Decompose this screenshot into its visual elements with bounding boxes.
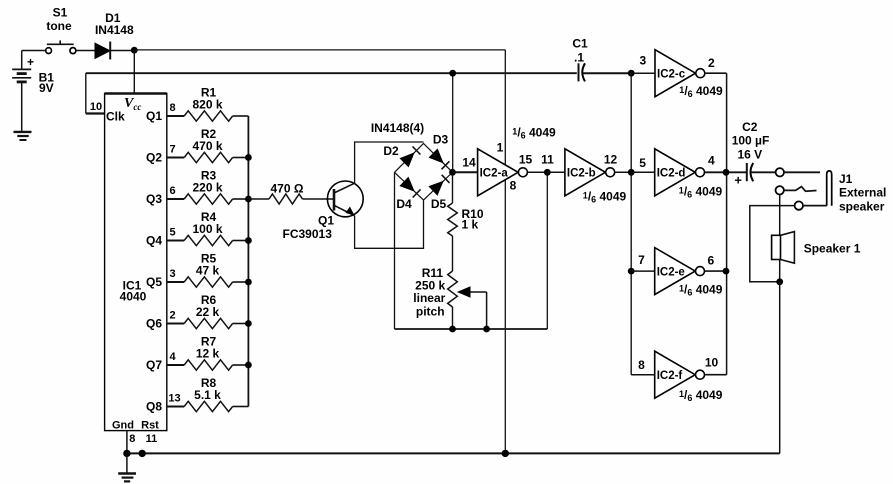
switch S1 tone <box>46 6 76 54</box>
pin 1 <box>497 141 504 155</box>
junction <box>245 362 252 369</box>
IC1 output Q8 pin 13 <box>146 393 184 414</box>
op-amp inverter IC2-d <box>655 149 705 196</box>
wire Q1 emitter <box>355 200 424 248</box>
wire Q1 collector <box>355 142 424 183</box>
svg-text:4: 4 <box>708 154 715 168</box>
svg-text:Q2: Q2 <box>146 151 162 165</box>
svg-text:Q6: Q6 <box>146 317 162 331</box>
diode D2 <box>383 144 420 167</box>
svg-text:11: 11 <box>541 153 554 167</box>
svg-text:3: 3 <box>639 53 646 67</box>
wire node14 to R10 <box>452 172 454 203</box>
svg-text:IC2-b: IC2-b <box>567 168 596 180</box>
svg-text:1 k: 1 k <box>462 217 479 231</box>
IC1 output Q5 pin 3 <box>146 268 184 289</box>
svg-text:470 k: 470 k <box>192 139 222 153</box>
svg-text:12: 12 <box>604 153 618 167</box>
jack sleeve contact <box>795 201 827 209</box>
svg-text:IC2-d: IC2-d <box>657 168 686 180</box>
junction IC2-e out <box>723 268 730 275</box>
svg-text:100 k: 100 k <box>192 222 222 236</box>
wire Vcc rail top <box>134 50 505 454</box>
svg-text:Speaker 1: Speaker 1 <box>804 242 861 256</box>
svg-text:IC2-a: IC2-a <box>480 168 509 180</box>
svg-text:5: 5 <box>169 227 175 239</box>
jack tip contact <box>776 168 784 176</box>
R11 wiper arrow <box>457 286 487 329</box>
svg-text:pitch: pitch <box>416 304 445 318</box>
wire node5 to IC2-d <box>631 171 655 173</box>
junction rst pin <box>139 450 146 457</box>
capacitor C1 .1 <box>572 37 588 82</box>
pin 14 <box>462 156 476 170</box>
diode D4 <box>396 177 420 211</box>
wire bus to R9 <box>248 198 269 200</box>
svg-text:Q5: Q5 <box>146 275 162 289</box>
wire speaker return drop <box>779 282 781 454</box>
svg-text:1/6 4049: 1/6 4049 <box>512 126 556 141</box>
wire output bus <box>726 73 728 375</box>
junction <box>245 279 252 286</box>
wire bridge edges <box>395 144 453 201</box>
wire node11 drop <box>546 172 548 329</box>
svg-text:22 k: 22 k <box>196 305 220 319</box>
op-amp inverter IC2-e <box>655 248 705 295</box>
wire IC2-d out <box>705 171 747 173</box>
svg-text:IC2-e: IC2-e <box>657 266 685 278</box>
svg-text:10: 10 <box>705 355 719 369</box>
jack NC contact <box>776 186 817 194</box>
IC1 Gnd pin stub <box>126 431 128 454</box>
svg-text:1: 1 <box>497 141 504 155</box>
svg-text:1/6 4049: 1/6 4049 <box>679 84 723 99</box>
pin 8 <box>510 179 517 193</box>
svg-text:FC39013: FC39013 <box>283 227 333 241</box>
node 3 <box>628 53 647 76</box>
svg-text:C2: C2 <box>742 120 758 134</box>
wire IC2-e out <box>705 270 727 272</box>
svg-text:External: External <box>839 186 886 200</box>
junction gnd pin <box>123 450 130 457</box>
op-amp inverter IC2-a <box>478 149 528 196</box>
label 1/6 4049 (d) <box>679 185 723 200</box>
svg-text:100 µF: 100 µF <box>732 134 770 148</box>
svg-text:D5: D5 <box>431 197 447 211</box>
svg-text:470 Ω: 470 Ω <box>271 181 304 195</box>
node 5 <box>628 156 646 176</box>
svg-text:820 k: 820 k <box>192 98 222 112</box>
svg-text:8: 8 <box>169 102 175 114</box>
resistor R8 5.1 k <box>184 376 248 412</box>
speaker Speaker 1 <box>772 232 861 264</box>
wire IC2-b out to node5 <box>615 171 632 173</box>
svg-text:15: 15 <box>519 153 533 167</box>
wire node11 to IC2-b <box>547 171 565 173</box>
junction <box>245 320 252 327</box>
svg-text:8: 8 <box>638 358 645 372</box>
wire Vcc drop to IC1 <box>133 50 135 93</box>
svg-text:13: 13 <box>168 393 180 405</box>
junction IC2-d out <box>723 169 730 176</box>
pin 6 <box>708 254 715 268</box>
svg-text:Rst: Rst <box>141 420 159 432</box>
svg-text:Q4: Q4 <box>146 234 162 248</box>
svg-text:.1: .1 <box>574 50 584 64</box>
node Vcc junction <box>131 47 138 54</box>
svg-text:D3: D3 <box>433 133 449 147</box>
svg-text:11: 11 <box>146 433 158 445</box>
node junction clk <box>449 70 456 77</box>
jack J1 frame <box>827 171 887 214</box>
wire C1 to node3 <box>583 72 632 74</box>
junction <box>245 196 252 203</box>
svg-text:1/6 4049: 1/6 4049 <box>583 190 627 205</box>
junction <box>245 154 252 161</box>
svg-text:6: 6 <box>169 185 175 197</box>
resistor R7 12 k <box>184 335 248 371</box>
IC1 output Q7 pin 4 <box>146 351 184 372</box>
svg-text:IC2-f: IC2-f <box>657 370 683 382</box>
op-amp inverter IC2-c <box>655 50 705 97</box>
IC1 output Q3 pin 6 <box>146 185 184 206</box>
wire R10 to R11 <box>452 236 454 271</box>
wire summing bus <box>247 116 249 407</box>
pin 4 <box>708 154 715 168</box>
svg-text:IN4148(4): IN4148(4) <box>371 121 424 135</box>
node 14 bridge output <box>449 169 456 176</box>
node 11 <box>541 153 554 176</box>
op-amp inverter IC2-f <box>655 351 705 398</box>
svg-text:8: 8 <box>510 179 517 193</box>
svg-text:linear: linear <box>413 291 445 305</box>
wire switch to diode <box>76 50 95 52</box>
svg-text:4040: 4040 <box>120 290 147 304</box>
junction R11 bottom <box>449 326 456 333</box>
junction vcc-line bottom <box>502 450 509 457</box>
svg-text:1/6 4049: 1/6 4049 <box>679 388 723 403</box>
potentiometer R11 250k linear pitch <box>413 266 457 318</box>
svg-text:Q7: Q7 <box>146 358 162 372</box>
svg-text:2: 2 <box>708 56 715 70</box>
wire IC2-a out <box>527 171 547 173</box>
transistor Q1 FC39013 <box>283 181 364 241</box>
svg-text:14: 14 <box>462 156 476 170</box>
IC U1 counter IC1 4040 box <box>90 94 167 446</box>
pin 2 <box>708 56 715 70</box>
wire R11 to rail <box>452 307 454 329</box>
ground (battery) <box>14 132 32 140</box>
svg-text:7: 7 <box>638 253 645 267</box>
svg-text:10: 10 <box>90 101 102 113</box>
wire node3 to IC2-c <box>631 72 655 74</box>
pin 10 <box>705 355 719 369</box>
svg-text:Q1: Q1 <box>318 214 334 228</box>
pin 15 <box>519 153 533 167</box>
svg-text:3: 3 <box>169 268 175 280</box>
svg-text:Q8: Q8 <box>146 400 162 414</box>
resistor R10 1k <box>448 203 484 236</box>
resistor 470 ohm <box>269 181 304 204</box>
wire IC2-c out <box>705 72 726 74</box>
svg-text:tone: tone <box>46 19 72 33</box>
wire speaker to junction <box>779 260 781 282</box>
label 1/6 4049 (f) <box>679 388 723 403</box>
IC1 output Q6 pin 2 <box>146 310 184 331</box>
pin 12 <box>604 153 618 167</box>
svg-text:Gnd: Gnd <box>112 420 134 432</box>
svg-text:7: 7 <box>169 144 175 156</box>
IC1 output Q1 pin 8 <box>146 102 184 123</box>
svg-text:C1: C1 <box>572 37 588 51</box>
svg-text:S1: S1 <box>53 6 68 20</box>
svg-text:4: 4 <box>169 351 176 363</box>
wire node7 to IC2-e <box>631 270 655 272</box>
svg-text:6: 6 <box>708 254 715 268</box>
junction <box>245 237 252 244</box>
svg-text:2: 2 <box>169 310 175 322</box>
wire R9 to Q1 base <box>303 198 335 200</box>
wire C2 to jack tip <box>751 171 775 173</box>
junction wiper bottom <box>483 326 490 333</box>
op-amp inverter IC2-b <box>565 149 615 196</box>
svg-text:+: + <box>27 55 34 69</box>
svg-text:+: + <box>734 173 742 188</box>
svg-text:5: 5 <box>639 156 646 170</box>
svg-text:220 k: 220 k <box>192 181 222 195</box>
diode D1 IN4148 <box>95 11 134 60</box>
ground (main) <box>118 453 136 481</box>
svg-text:Q3: Q3 <box>146 192 162 206</box>
wire sleeve loop <box>750 206 795 282</box>
resistor R3 220 k <box>184 169 248 205</box>
svg-text:9V: 9V <box>39 81 54 95</box>
label 1/6 4049 (b) <box>583 190 627 205</box>
battery B1 9V <box>12 51 54 132</box>
svg-text:16 V: 16 V <box>737 147 762 161</box>
wire node14 to clkline <box>452 73 454 172</box>
resistor R1 820 k <box>184 86 248 122</box>
resistor R2 470 k <box>184 127 248 163</box>
wire input bus <box>630 73 632 375</box>
IC1 output Q4 pin 5 <box>146 227 184 248</box>
svg-text:speaker: speaker <box>839 200 885 214</box>
resistor R5 47 k <box>184 252 248 288</box>
wire battery to switch <box>22 50 46 52</box>
svg-text:Q1: Q1 <box>146 109 162 123</box>
resistor R4 100 k <box>184 210 248 246</box>
junction speaker return <box>776 278 783 285</box>
wire ground rail <box>127 452 780 454</box>
svg-text:D4: D4 <box>396 197 412 211</box>
svg-text:1/6 4049: 1/6 4049 <box>679 185 723 200</box>
svg-text:5.1 k: 5.1 k <box>194 388 221 402</box>
wire NC to speaker <box>779 195 781 236</box>
resistor R6 22 k <box>184 293 248 329</box>
node 7 <box>628 253 645 275</box>
svg-text:47 k: 47 k <box>196 264 220 278</box>
IC1 output Q2 pin 7 <box>146 144 184 165</box>
wire node8 to IC2-f <box>631 358 655 375</box>
label 1/6 4049 (a) <box>512 126 556 141</box>
label IN4148(4) <box>371 121 424 135</box>
wire Clk feedback <box>86 73 577 113</box>
diode D3 <box>429 133 450 170</box>
svg-text:12 k: 12 k <box>196 347 220 361</box>
wire diode to Vcc junction <box>110 50 134 52</box>
svg-text:J1: J1 <box>839 172 853 186</box>
wire IC2-f out <box>705 374 727 376</box>
capacitor C2 100uF 16V <box>732 120 770 188</box>
label 1/6 4049 (e) <box>679 283 723 298</box>
wire bridge left to rail <box>394 172 396 329</box>
diode D5 <box>428 175 449 211</box>
svg-text:IC2-c: IC2-c <box>657 68 686 80</box>
svg-text:D2: D2 <box>383 144 399 158</box>
label 1/6 4049 (c) <box>679 84 723 99</box>
svg-text:Clk: Clk <box>106 110 125 124</box>
wire tip to jack <box>784 171 820 173</box>
svg-text:1/6 4049: 1/6 4049 <box>679 283 723 298</box>
svg-text:IN4148: IN4148 <box>95 23 134 37</box>
svg-text:8: 8 <box>129 433 135 445</box>
wire bottom rail of oscillator <box>395 328 548 330</box>
wire node14 to IC2-a <box>453 171 478 173</box>
